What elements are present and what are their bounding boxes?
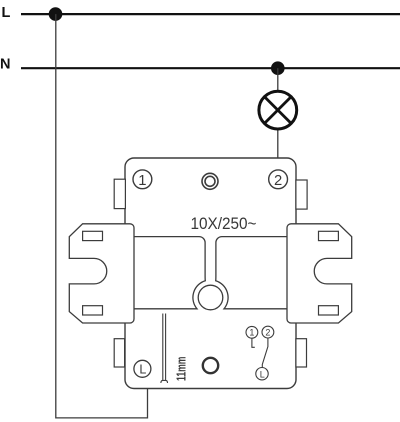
wire from N junction to lamp <box>277 68 279 91</box>
terminal 1 circle <box>133 170 152 189</box>
switch actuator circle <box>203 358 218 373</box>
rocker frame left half <box>131 237 205 309</box>
svg-text:2: 2 <box>265 327 270 337</box>
terminal 2 circle <box>269 170 288 189</box>
side tab lower-right <box>296 339 307 367</box>
screw depth gauge (nail) <box>161 314 168 384</box>
terminal L circle <box>134 360 151 377</box>
side tab upper-right <box>296 180 307 209</box>
wire N line <box>21 67 400 69</box>
wire from lamp to switch terminal 2 <box>277 129 279 159</box>
junction on L <box>49 7 63 21</box>
svg-text:L: L <box>2 5 11 21</box>
center pivot circle <box>198 285 223 310</box>
fixing screw hole (double circle) <box>202 173 218 189</box>
contact diagram: terminal 2 <box>262 326 274 367</box>
wire L line <box>21 13 400 15</box>
svg-text:1: 1 <box>249 328 254 338</box>
contact diagram: terminal L <box>256 368 268 380</box>
svg-text:2: 2 <box>274 173 282 189</box>
wire from L junction down left side and along bottom to switch L terminal <box>56 14 148 418</box>
svg-text:L: L <box>139 362 146 376</box>
contact diagram: terminal 1 <box>246 326 258 347</box>
mounting claw left <box>69 224 134 323</box>
svg-text:11mm: 11mm <box>175 357 189 382</box>
side tab lower-left <box>114 339 124 367</box>
svg-text:N: N <box>0 57 10 73</box>
mounting claw right <box>287 224 352 323</box>
svg-text:10X/250~: 10X/250~ <box>191 214 257 233</box>
side tab upper-left <box>114 179 125 208</box>
svg-text:1: 1 <box>138 173 146 189</box>
rocker frame right half <box>216 237 290 309</box>
junction on N <box>271 61 285 75</box>
lamp E1 <box>259 91 297 129</box>
switch body <box>125 158 296 389</box>
svg-text:L: L <box>260 369 265 379</box>
